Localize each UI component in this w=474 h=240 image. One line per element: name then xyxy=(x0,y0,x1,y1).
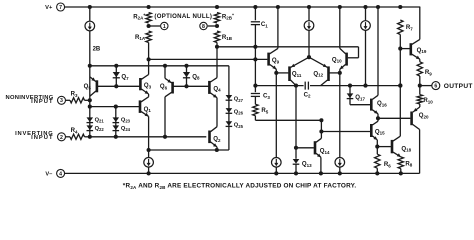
svg-text:INPUT: INPUT xyxy=(31,135,53,141)
svg-text:Q27: Q27 xyxy=(234,97,244,103)
svg-text:Q23: Q23 xyxy=(121,117,131,123)
svg-text:2B: 2B xyxy=(93,47,101,53)
svg-text:1: 1 xyxy=(163,24,166,30)
svg-text:6: 6 xyxy=(434,84,437,90)
svg-text:2: 2 xyxy=(60,135,63,141)
svg-text:V–: V– xyxy=(45,171,52,177)
svg-text:Q22: Q22 xyxy=(95,126,105,132)
svg-text:7: 7 xyxy=(59,5,62,11)
svg-text:(OPTIONAL NULL): (OPTIONAL NULL) xyxy=(154,13,212,20)
svg-text:3: 3 xyxy=(60,98,63,104)
svg-text:V+: V+ xyxy=(45,5,53,11)
svg-text:INPUT: INPUT xyxy=(31,99,53,105)
svg-text:Q21: Q21 xyxy=(95,117,105,123)
svg-text:4: 4 xyxy=(59,171,62,177)
svg-text:8: 8 xyxy=(202,24,205,30)
svg-text:OUTPUT: OUTPUT xyxy=(444,83,473,90)
svg-text:Q24: Q24 xyxy=(121,126,131,132)
svg-text:Q26: Q26 xyxy=(234,109,244,115)
svg-text:*R2A AND R2B ARE ELECTRONICALL: *R2A AND R2B ARE ELECTRONICALLY ADJUSTED… xyxy=(123,183,357,190)
svg-text:Q25: Q25 xyxy=(234,123,244,129)
